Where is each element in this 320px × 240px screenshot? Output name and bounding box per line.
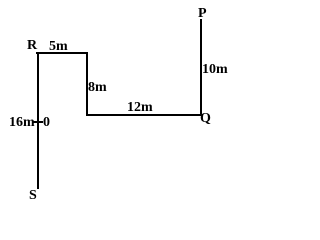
wire Q horizontal 12m [86,114,202,116]
label 5m [49,40,68,54]
label 16m [9,116,35,130]
node O [43,116,50,130]
wire P-Q vertical 10m [200,19,202,116]
node O tick [33,121,43,123]
wire vertical 8m [86,52,88,116]
wire top horizontal 5m [36,52,88,54]
label 8m [88,81,107,95]
node Q [200,112,211,126]
wire R-S vertical 16m [37,52,39,189]
node P [198,7,207,21]
node S [29,189,37,203]
label 10m [202,63,228,77]
node R [27,39,37,53]
label 12m [127,101,153,115]
